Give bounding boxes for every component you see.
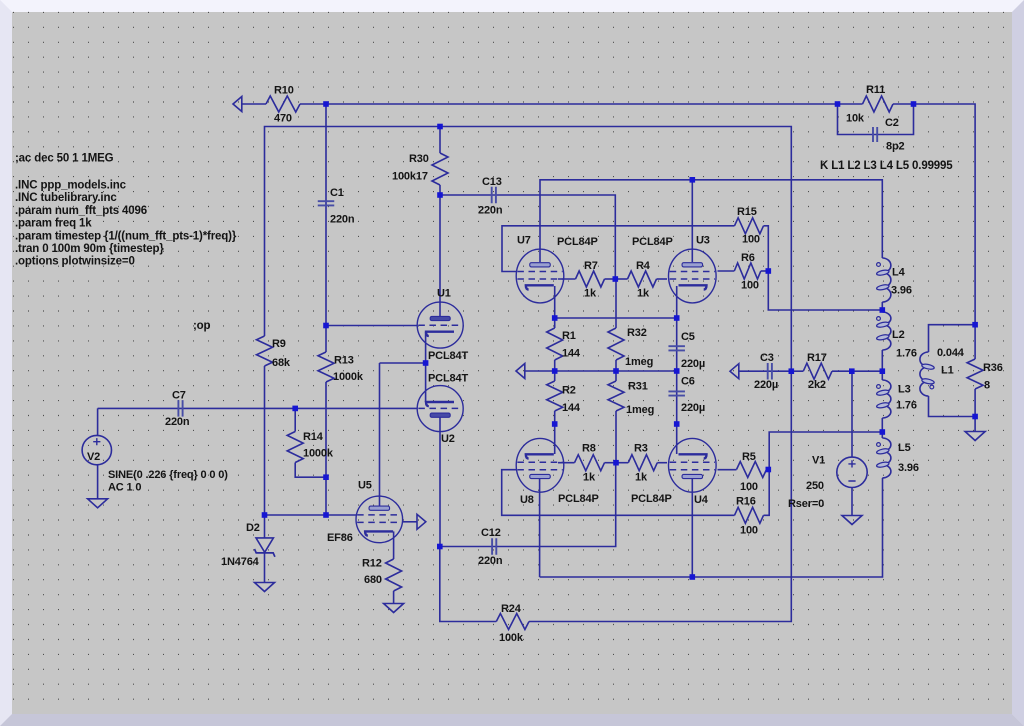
- capacitor C3: [768, 363, 772, 380]
- junction at (837.5,104): [835, 101, 841, 107]
- svg-text:8: 8: [984, 380, 990, 392]
- svg-text:PCL84P: PCL84P: [558, 493, 599, 505]
- svg-text:.param timestep {1/((num_fft_p: .param timestep {1/((num_fft_pts-1)*freq…: [15, 230, 237, 242]
- tube U3 PCL84P mirrored: [669, 249, 717, 303]
- tube U2 PCL84T triode inverted: [417, 386, 463, 432]
- junction at (692.3,577): [690, 574, 696, 580]
- wire: R11 right to top-right corner down to R36 node: [893, 104, 975, 325]
- svg-text:C2: C2: [885, 117, 899, 129]
- svg-text:1k: 1k: [584, 288, 597, 300]
- inductor L5: [882, 438, 891, 478]
- resistor R16: [735, 507, 764, 523]
- svg-text:V1: V1: [812, 455, 825, 467]
- tube U8 PCL84P inverted: [516, 438, 564, 492]
- junction at (851.8,371.2): [849, 368, 855, 374]
- wire: R4 to U3: [657, 278, 668, 280]
- wire: y=180 rail U7 top to L4 top: [540, 180, 882, 262]
- svg-text:1.76: 1.76: [896, 400, 917, 412]
- svg-text:.INC tubelibrary.inc: .INC tubelibrary.inc: [15, 192, 117, 204]
- resistor R8: [575, 455, 605, 471]
- wire: U1 grid from C1/R13 node: [326, 325, 418, 327]
- svg-text:.options plotwinsize=0: .options plotwinsize=0: [15, 256, 135, 268]
- junction at (425.6,363): [423, 360, 429, 366]
- junction at (440,195): [437, 192, 443, 198]
- svg-text:R13: R13: [334, 355, 354, 367]
- resistor R9: [257, 336, 273, 366]
- resistor R6: [734, 263, 761, 279]
- wire: R6 to junction: [761, 270, 769, 272]
- junction at (676.7,318): [674, 315, 680, 321]
- junction at (975.1,416.5): [972, 414, 978, 420]
- tube U1 PCL84T triode: [417, 302, 463, 348]
- svg-text:1000k: 1000k: [303, 448, 334, 460]
- junction at (913.5,104): [911, 101, 917, 107]
- svg-text:1k: 1k: [583, 472, 596, 484]
- wire: U1 anode lead from R30 node: [439, 195, 441, 316]
- resistor R7: [576, 271, 605, 287]
- wire: U3 top cap lead: [691, 180, 693, 262]
- wire: R1 bottom to R2 top through node: [554, 360, 556, 381]
- wire: R8 to junction: [605, 462, 616, 464]
- wire: U8 grid loop to R16: [502, 470, 735, 516]
- junction at (791.3,371.2): [789, 368, 795, 374]
- svg-text:220n: 220n: [478, 205, 503, 217]
- wire: R7/R4 junction down to R32: [615, 279, 617, 328]
- output arrow of U5: [417, 514, 426, 529]
- junction at (616,462.7): [613, 460, 619, 466]
- svg-text:L2: L2: [892, 329, 905, 341]
- svg-text:C6: C6: [681, 376, 695, 388]
- svg-text:100k17: 100k17: [392, 171, 428, 183]
- svg-text:R9: R9: [272, 338, 286, 350]
- wire: junction to R4: [615, 278, 627, 280]
- wire: U5 anode column from cathode node: [379, 363, 381, 506]
- wire: R32 to R31 through node: [615, 360, 617, 381]
- svg-text:L4: L4: [892, 267, 906, 279]
- svg-text:U2: U2: [441, 433, 455, 445]
- svg-text:PCL84T: PCL84T: [428, 350, 468, 362]
- svg-text:1k: 1k: [635, 472, 648, 484]
- wire: U2 anode down to C12 node: [439, 416, 441, 547]
- tube U4 PCL84P inverted mirrored: [669, 438, 717, 492]
- junction at (882.3,432): [880, 429, 886, 435]
- resistor R10: [266, 96, 300, 112]
- mid rail arrow: [516, 364, 525, 379]
- junction at (882.3,371.2): [880, 368, 886, 374]
- wire: R3 to U4: [657, 462, 667, 464]
- svg-text:U1: U1: [437, 288, 451, 300]
- svg-text:220n: 220n: [330, 214, 355, 226]
- svg-text:C13: C13: [482, 176, 502, 188]
- wire: R36 bottom lead: [974, 389, 976, 417]
- junction at (676.7,424): [674, 421, 680, 427]
- svg-text:1meg: 1meg: [626, 404, 654, 416]
- junction at (615.3,279): [613, 276, 619, 282]
- svg-text:R10: R10: [274, 85, 294, 97]
- wire: V1 top lead: [851, 371, 853, 457]
- svg-text:R2: R2: [562, 385, 576, 397]
- resistor R32: [608, 328, 624, 360]
- junction at (439.8,546.5): [437, 544, 443, 550]
- inductor L3: [882, 380, 891, 418]
- svg-text:PCL84P: PCL84P: [631, 493, 672, 505]
- wire: top rail y=104 from input arrow to R11: [242, 103, 266, 105]
- wire: L1 bottom to R36 bottom node: [929, 396, 976, 417]
- wire: L3 bottom to L5 top: [881, 418, 883, 438]
- ground below R36: [965, 432, 985, 441]
- wire: U5 output to arrow: [402, 521, 417, 523]
- svg-text:100: 100: [740, 525, 758, 537]
- wire: R14 top lead: [294, 408, 296, 431]
- resistor R2: [547, 381, 563, 411]
- wire: U8 to R8: [558, 462, 575, 464]
- wire: node through C13 to R7/R4 junction: [440, 195, 615, 279]
- resistor R3: [628, 455, 657, 471]
- wire: D2 cathode to ground: [264, 553, 266, 583]
- svg-text:R24: R24: [501, 603, 522, 615]
- junction at (326,515): [323, 512, 329, 518]
- wire: U5 grid wire: [265, 514, 357, 516]
- wire: R13 bottom to U5 grid node: [325, 382, 327, 515]
- svg-text:0.044: 0.044: [937, 347, 965, 359]
- resistor R5: [737, 462, 767, 478]
- junction at (676.7,371): [674, 368, 680, 374]
- capacitor C12: [492, 538, 496, 555]
- junction at (554.7,424): [552, 421, 558, 427]
- resistor R36: [967, 359, 983, 389]
- svg-text:R1: R1: [562, 330, 576, 342]
- svg-text:100: 100: [742, 234, 760, 246]
- wire: bottom rail y=577 to L5 bottom: [540, 478, 883, 577]
- junction at (326,104): [323, 101, 329, 107]
- svg-text:R11: R11: [866, 84, 885, 96]
- junction at (616,371): [613, 368, 619, 374]
- svg-text:R32: R32: [627, 327, 647, 339]
- svg-text:C5: C5: [681, 331, 695, 343]
- wire: R36 top lead: [974, 325, 976, 359]
- svg-text:U8: U8: [520, 494, 534, 506]
- junction at (295.2,408.4): [292, 406, 298, 412]
- capacitor C2 parallel branch: [838, 104, 914, 135]
- junction at (975.1,324.7): [972, 322, 978, 328]
- resistor R14: [287, 432, 303, 463]
- svg-text:R16: R16: [736, 496, 756, 508]
- resistor R4: [628, 271, 657, 287]
- svg-text:144: 144: [562, 402, 581, 414]
- wire: R12 to ground: [393, 591, 395, 604]
- svg-text:100: 100: [740, 481, 758, 493]
- wire: y=432 rail L3/L5 node to R5/R16 vertical: [764, 432, 883, 515]
- wire: mid rail from arrow through R1 R32 C5 columns: [524, 370, 676, 372]
- wire: U4 grid to R5: [718, 469, 737, 471]
- svg-text:AC 1 0: AC 1 0: [108, 482, 141, 494]
- svg-text:8p2: 8p2: [886, 141, 905, 153]
- svg-text:220µ: 220µ: [681, 358, 705, 370]
- junction at (768.3,469.5): [766, 467, 772, 473]
- junction at (882.3,310): [880, 307, 886, 313]
- wire: U7 grid loop to R15: [502, 226, 735, 272]
- wire: junction to R3: [616, 462, 629, 464]
- ground below R12: [384, 604, 404, 613]
- svg-text:PCL84T: PCL84T: [428, 373, 468, 385]
- resistor R30: [432, 153, 448, 185]
- svg-text:K L1 L2 L3 L4 L5 0.99995: K L1 L2 L3 L4 L5 0.99995: [820, 160, 953, 172]
- wire: cathode rail U7-U3: [555, 317, 677, 319]
- svg-text:220µ: 220µ: [754, 379, 778, 391]
- wire: L2 bottom to L3 top: [881, 350, 883, 380]
- svg-text:;ac dec 50 1 1MEG: ;ac dec 50 1 1MEG: [15, 153, 114, 165]
- svg-text:1.76: 1.76: [896, 348, 917, 360]
- svg-text:U4: U4: [694, 494, 709, 506]
- svg-text:1k: 1k: [637, 288, 650, 300]
- wire: R8/R3 junction down through C12 to U2 anode node: [440, 463, 616, 547]
- svg-text:R36: R36: [983, 362, 1003, 374]
- wire: V2 top lead: [97, 408, 99, 435]
- svg-text:100k: 100k: [499, 632, 524, 644]
- wire: U8 anode down to bottom rail: [539, 477, 541, 577]
- tube U7 PCL84P: [516, 249, 564, 303]
- svg-text:3.96: 3.96: [898, 462, 919, 474]
- svg-text:R12: R12: [362, 558, 382, 570]
- resistor R11: [863, 96, 894, 112]
- junction at (692.3,179.8): [690, 177, 696, 183]
- wire: C1 column from top rail to U1 grid node: [325, 104, 327, 326]
- svg-text:220n: 220n: [165, 416, 190, 428]
- wire: R2 bottom to U8 cathode: [554, 411, 556, 454]
- svg-text:U3: U3: [696, 235, 710, 247]
- svg-text:1000k: 1000k: [333, 371, 364, 383]
- inductor L1: [920, 352, 929, 396]
- svg-text:.param num_fft_pts 4096: .param num_fft_pts 4096: [15, 205, 147, 217]
- junction at (440,126.5): [437, 124, 443, 130]
- svg-text:R5: R5: [742, 451, 756, 463]
- svg-text:100: 100: [741, 280, 759, 292]
- capacitor C5: [668, 346, 685, 350]
- capacitor C13: [492, 187, 496, 204]
- wire: U2 cathode lead up: [425, 363, 427, 402]
- wire: R9 bottom through D2 to ground: [264, 366, 266, 538]
- svg-text:L5: L5: [898, 442, 911, 454]
- capacitor C6: [668, 391, 685, 395]
- resistor R15: [735, 218, 764, 234]
- svg-text:PCL84P: PCL84P: [557, 236, 598, 248]
- inductor L2: [882, 312, 891, 350]
- junction at (768.3,271): [766, 268, 772, 274]
- wire: V2 bottom lead to ground: [97, 465, 99, 499]
- wire: R5 right end to vertical: [767, 469, 770, 471]
- wire: R30 top lead: [439, 127, 441, 154]
- svg-text:Rser=0: Rser=0: [788, 498, 824, 510]
- svg-text:R17: R17: [807, 352, 827, 364]
- wire: input rail through C7 to U2 grid: [98, 407, 418, 409]
- svg-text:R6: R6: [741, 252, 755, 264]
- svg-text:250: 250: [806, 480, 824, 492]
- wire: R14 bottom elbow to R13 column: [295, 463, 326, 478]
- wire: R30 bottom lead to node: [439, 185, 441, 195]
- wire: U3 to R6: [718, 270, 735, 272]
- svg-text:1N4764: 1N4764: [221, 556, 260, 568]
- wire: R15 right end down to R6 node: [764, 226, 769, 271]
- junction at (326,325.5): [323, 323, 329, 329]
- wire: U3 cathode column through C5 and C6 to U4 cathode: [676, 286, 678, 454]
- wire: V1 bottom lead to ground: [851, 488, 853, 516]
- svg-text:D2: D2: [246, 522, 260, 534]
- capacitor C1: [318, 201, 335, 205]
- ground below V2: [88, 499, 108, 508]
- svg-text:PCL84P: PCL84P: [632, 236, 673, 248]
- wire: R17 right through V1 node to L2/L3 node: [832, 370, 882, 372]
- wire: U4 anode down to bottom rail: [691, 477, 693, 577]
- resistor R12: [386, 559, 402, 591]
- wire: R15/R6 node down and right to L4 bottom: [768, 271, 882, 310]
- wire: U7 cathode lead down to R1: [554, 286, 556, 328]
- wire: feedback rail y=126 with R9 drop and long right vertical to R24: [265, 127, 792, 622]
- svg-text:220n: 220n: [478, 555, 503, 567]
- resistor R17: [803, 363, 832, 379]
- svg-text:R14: R14: [303, 431, 324, 443]
- svg-text:68k: 68k: [272, 357, 291, 369]
- junction at (326,477.2): [323, 474, 329, 480]
- ground below V1: [842, 516, 862, 525]
- wire: R13 top lead: [325, 326, 327, 353]
- svg-text:C3: C3: [760, 352, 774, 364]
- svg-text:R3: R3: [634, 443, 648, 455]
- svg-text:R4: R4: [636, 260, 651, 272]
- svg-text:R7: R7: [584, 260, 598, 272]
- input arrow at R10: [233, 97, 242, 112]
- junction at (264.5,515): [262, 512, 268, 518]
- svg-text:144: 144: [562, 348, 581, 360]
- junction at (554.7,318): [552, 315, 558, 321]
- svg-text:220µ: 220µ: [681, 402, 705, 414]
- zener diode D2: [256, 538, 273, 552]
- svg-text:R8: R8: [582, 443, 596, 455]
- svg-text:U5: U5: [358, 480, 372, 492]
- voltage source V2: [82, 435, 111, 464]
- wire: U7 to R7: [558, 278, 576, 280]
- wire: R36 node to L1 top: [929, 325, 976, 352]
- svg-text:V2: V2: [87, 451, 100, 463]
- junction at (554.7,371): [552, 368, 558, 374]
- svg-text:R31: R31: [628, 381, 648, 393]
- wire: R31 bottom to R8/R3 junction: [615, 411, 617, 463]
- inductor L4: [882, 258, 891, 302]
- svg-text:680: 680: [364, 574, 382, 586]
- svg-text:EF86: EF86: [327, 532, 353, 544]
- svg-text:10k: 10k: [846, 113, 865, 125]
- svg-text:;op: ;op: [193, 320, 211, 332]
- wire: L4 bottom to L2 top: [881, 302, 883, 312]
- resistor R13: [318, 352, 334, 382]
- wire: R7 to junction: [605, 278, 616, 280]
- svg-text:.param freq 1k: .param freq 1k: [15, 218, 92, 230]
- resistor R24: [496, 614, 529, 630]
- wire: U5 cathode to R12: [393, 531, 395, 559]
- wire: cathode node to U5 anode column: [380, 362, 426, 364]
- resistor R1: [547, 328, 563, 360]
- voltage source V1: [837, 457, 867, 487]
- ground below D2: [255, 583, 275, 592]
- resistor R31: [608, 381, 624, 411]
- svg-text:3.96: 3.96: [891, 285, 912, 297]
- svg-text:SINE(0 .226 {freq} 0 0 0): SINE(0 .226 {freq} 0 0 0): [108, 469, 228, 481]
- capacitor C7: [178, 400, 182, 417]
- svg-text:.tran 0 100m 90m {timestep}: .tran 0 100m 90m {timestep}: [15, 243, 164, 255]
- arrow at C3: [730, 364, 739, 379]
- tube U5 EF86 pentode: [356, 496, 403, 543]
- wire: R24 left lead up to C12 node: [440, 547, 497, 622]
- svg-text:470: 470: [274, 113, 292, 125]
- svg-text:U7: U7: [517, 235, 531, 247]
- wire: U1 cathode to shared node: [425, 332, 427, 363]
- svg-text:1meg: 1meg: [625, 356, 653, 368]
- svg-text:C12: C12: [481, 527, 501, 539]
- svg-text:C1: C1: [330, 187, 344, 199]
- svg-text:2k2: 2k2: [808, 379, 826, 391]
- svg-text:.INC ppp_models.inc: .INC ppp_models.inc: [15, 180, 127, 192]
- wire: R36 node to ground: [974, 417, 976, 432]
- wire: arrow through C3 to R17: [738, 370, 803, 372]
- svg-text:R15: R15: [737, 206, 757, 218]
- svg-text:R30: R30: [409, 153, 429, 165]
- svg-text:L1: L1: [941, 365, 954, 377]
- svg-text:C7: C7: [172, 390, 186, 402]
- svg-text:L3: L3: [898, 384, 911, 396]
